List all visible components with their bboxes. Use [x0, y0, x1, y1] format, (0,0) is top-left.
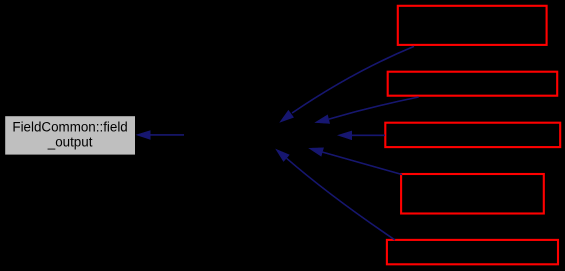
edge: caller box 2 -> middle node	[314, 97, 418, 124]
edge: caller box 5 -> middle node	[275, 149, 395, 240]
edge: caller box 1 -> middle node	[279, 46, 414, 122]
edge: caller box 3 -> middle node	[337, 131, 385, 141]
edge: caller box 4 -> middle node	[308, 148, 402, 175]
node: caller box 2 (red)	[388, 72, 558, 96]
node: caller box 4 (red)	[401, 174, 544, 214]
svg-text:FieldCommon::field: FieldCommon::field	[12, 119, 127, 134]
edge: middle node -> FieldCommon::field_output	[136, 130, 185, 140]
node: caller box 5 (bottom, red)	[387, 240, 558, 264]
node: FieldCommon::field_output (current node, grey)	[5, 116, 135, 154]
node: caller box 3 (red)	[385, 123, 560, 147]
node: caller box 1 (top, red)	[398, 6, 547, 45]
node: hidden middle caller (black on black, invisible)	[184, 123, 338, 147]
svg-text:_output: _output	[47, 134, 93, 149]
